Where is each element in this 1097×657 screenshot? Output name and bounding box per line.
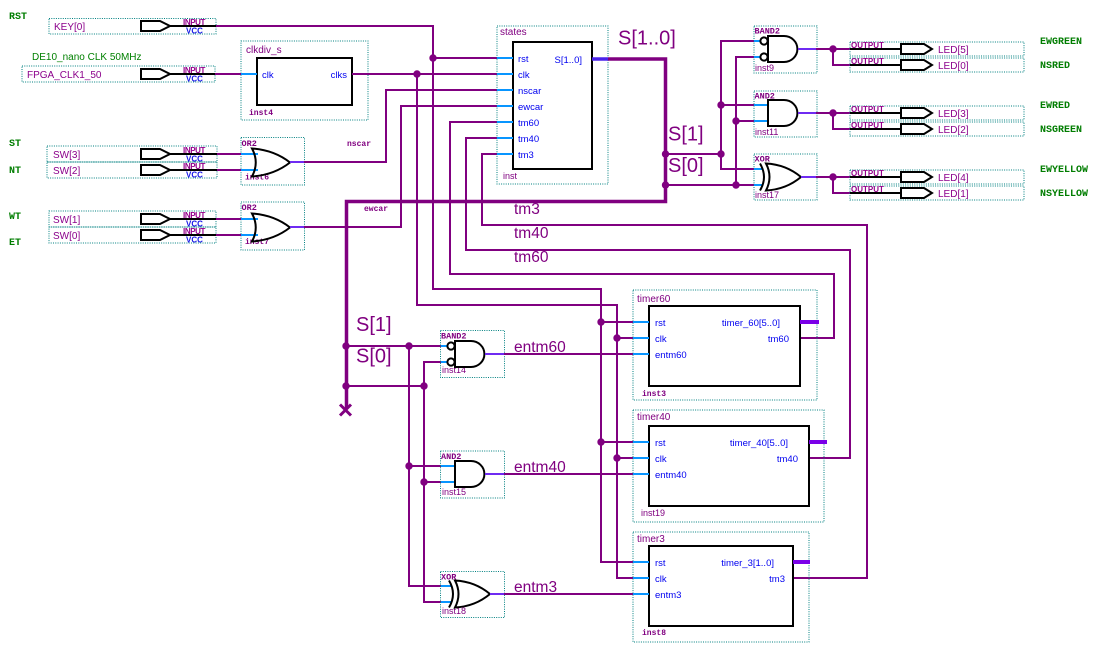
output pin LED[2] — [850, 121, 1024, 136]
node EWRED label — [1040, 101, 1070, 112]
wire SW[0] to inst7 — [216, 234, 241, 236]
svg-text:clk: clk — [262, 70, 274, 81]
svg-text:OR2: OR2 — [242, 203, 257, 213]
wire rst branch to states — [429, 54, 497, 61]
svg-text:KEY[0]: KEY[0] — [54, 22, 85, 33]
wire entm3 net — [504, 593, 633, 595]
svg-text:NSGREEN: NSGREEN — [1040, 125, 1082, 136]
svg-text:clk: clk — [655, 454, 667, 465]
node RST label — [9, 12, 27, 23]
wire entm60 net — [504, 353, 633, 355]
svg-text:inst3: inst3 — [642, 390, 666, 399]
and-gate AND2 inst15 — [441, 451, 505, 498]
wire S[1] tap upper — [662, 150, 721, 157]
xor-gate XOR inst18 — [441, 572, 505, 618]
svg-text:inst9: inst9 — [755, 63, 774, 73]
svg-text:S[1]: S[1] — [356, 314, 392, 336]
wire clk branch to states — [413, 70, 497, 77]
svg-text:SW[3]: SW[3] — [53, 150, 80, 161]
comment DE10_nano CLK 50MHz — [32, 52, 142, 63]
svg-text:EWYELLOW: EWYELLOW — [1040, 165, 1088, 176]
svg-text:nscar: nscar — [518, 86, 541, 97]
svg-text:SW[1]: SW[1] — [53, 215, 80, 226]
svg-text:rst: rst — [655, 558, 666, 569]
svg-text:tm60: tm60 — [514, 249, 549, 266]
node WT label — [9, 212, 21, 223]
svg-text:tm3: tm3 — [518, 150, 534, 161]
or-gate OR2 inst7 — [241, 202, 305, 250]
svg-text:clks: clks — [331, 70, 348, 81]
svg-text:SW[2]: SW[2] — [53, 166, 80, 177]
svg-text:RST: RST — [9, 12, 27, 23]
node EWGREEN label — [1040, 37, 1082, 48]
svg-text:NSRED: NSRED — [1040, 61, 1070, 72]
block states inst — [497, 26, 608, 184]
wire rst branch to timer60 — [597, 318, 633, 325]
wire S[1] branch to inst11 — [717, 101, 754, 108]
svg-text:VCC: VCC — [186, 171, 203, 180]
svg-text:SW[0]: SW[0] — [53, 231, 80, 242]
input pin SW[3] — [47, 146, 217, 164]
or-gate OR2 inst6 — [241, 138, 305, 186]
wire S[1] vertical to gates — [717, 41, 754, 169]
input pin KEY[0] — [49, 18, 216, 36]
wire S[0] vertical lower — [424, 386, 441, 602]
svg-text:EWGREEN: EWGREEN — [1040, 37, 1082, 48]
svg-text:rst: rst — [518, 54, 529, 65]
wire SW[3] to inst6 — [217, 153, 241, 155]
svg-text:NSYELLOW: NSYELLOW — [1040, 189, 1088, 200]
svg-text:LED[0]: LED[0] — [938, 61, 969, 72]
svg-text:LED[2]: LED[2] — [938, 125, 969, 136]
wire FPGA_CLK1_50 to clkdiv — [215, 73, 241, 75]
node NSRED label — [1040, 61, 1070, 72]
output pin LED[0] — [850, 57, 1024, 72]
block timer3 inst8 — [633, 532, 810, 642]
output pin LED[5] — [850, 41, 1024, 56]
and-gate AND2 inst11 — [754, 91, 817, 137]
svg-text:timer_3[1..0]: timer_3[1..0] — [721, 558, 774, 569]
svg-text:inst17: inst17 — [755, 190, 779, 200]
bus dangling X — [340, 405, 351, 416]
svg-text:tm40: tm40 — [777, 454, 798, 465]
wire nscar net — [304, 90, 497, 162]
svg-text:inst11: inst11 — [755, 127, 778, 137]
svg-text:NT: NT — [9, 166, 21, 177]
svg-text:VCC: VCC — [186, 75, 203, 84]
node entm60 label — [514, 339, 566, 356]
wire S[1] vertical lower — [409, 346, 441, 586]
svg-text:clkdiv_s: clkdiv_s — [246, 45, 282, 56]
bus S[1..0] — [347, 59, 666, 409]
svg-text:LED[4]: LED[4] — [938, 173, 969, 184]
svg-text:VCC: VCC — [186, 27, 203, 36]
svg-text:clk: clk — [655, 334, 667, 345]
svg-text:entm60: entm60 — [514, 339, 566, 356]
node S[0] label lower — [356, 346, 392, 368]
block timer60 inst3 — [633, 290, 819, 400]
node NT label — [9, 166, 21, 177]
wire clk branch to timer60 — [613, 334, 633, 341]
svg-text:timer_40[5..0]: timer_40[5..0] — [730, 438, 788, 449]
input pin FPGA_CLK1_50 — [22, 66, 215, 84]
node tm3 label — [514, 201, 540, 218]
nand-gate BAND2 inst9 — [754, 26, 817, 73]
wire S[0] tap lower — [342, 382, 427, 389]
svg-text:timer60: timer60 — [637, 294, 671, 305]
svg-text:inst4: inst4 — [249, 109, 273, 118]
wire rst branch to timer40 — [597, 438, 633, 445]
svg-text:entm40: entm40 — [514, 459, 566, 476]
svg-text:VCC: VCC — [186, 236, 203, 245]
node S[1] label upper — [668, 124, 704, 146]
svg-text:inst: inst — [503, 171, 518, 181]
svg-text:rst: rst — [655, 438, 666, 449]
xor-gate XOR inst17 — [754, 154, 817, 200]
block clkdiv_s inst4 — [241, 41, 368, 120]
node ST label — [9, 139, 21, 150]
node nscar label — [347, 140, 371, 149]
input pin SW[0] — [49, 227, 216, 245]
svg-text:timer40: timer40 — [637, 412, 671, 423]
svg-text:tm60: tm60 — [518, 118, 539, 129]
svg-text:timer3: timer3 — [637, 534, 665, 545]
svg-text:LED[1]: LED[1] — [938, 189, 969, 200]
node entm40 label — [514, 459, 566, 476]
output pin LED[1] — [850, 185, 1024, 200]
node tm40 label — [514, 225, 549, 242]
svg-text:inst19: inst19 — [641, 508, 665, 518]
svg-text:inst8: inst8 — [642, 629, 666, 638]
wire clk branch to timer40 — [613, 454, 633, 461]
wire ewcar net — [304, 106, 497, 227]
svg-text:DE10_nano CLK 50MHz: DE10_nano CLK 50MHz — [32, 52, 142, 63]
svg-text:S[1..0]: S[1..0] — [618, 28, 676, 50]
svg-text:timer_60[5..0]: timer_60[5..0] — [722, 318, 780, 329]
svg-text:clk: clk — [655, 574, 667, 585]
svg-text:ET: ET — [9, 238, 21, 249]
node NSGREEN label — [1040, 125, 1082, 136]
wire S[0] vertical to gates — [736, 57, 754, 185]
wire clk net: clks to states and timers — [352, 74, 633, 578]
svg-text:entm3: entm3 — [514, 579, 557, 596]
wire tm60 net — [450, 122, 834, 338]
svg-text:tm3: tm3 — [514, 201, 540, 218]
wire tm40 net — [466, 138, 850, 458]
svg-text:states: states — [500, 27, 527, 38]
wire SW[2] to inst6 — [217, 169, 241, 171]
node ewcar label — [364, 205, 388, 214]
svg-text:ST: ST — [9, 139, 21, 150]
node S[1] label lower — [356, 314, 392, 336]
svg-text:nscar: nscar — [347, 140, 371, 149]
output pin LED[3] — [850, 105, 1024, 120]
wire inst11 output to LED[3]/LED[2] — [816, 109, 850, 129]
wire S[1] tap lower — [342, 342, 441, 349]
svg-text:LED[3]: LED[3] — [938, 109, 969, 120]
wire tm3 net — [482, 154, 867, 578]
wire S[1] branch to inst15 — [405, 462, 441, 469]
wire entm40 net — [504, 473, 633, 475]
svg-text:S[1]: S[1] — [668, 124, 704, 146]
node S[1..0] label — [618, 28, 676, 50]
svg-text:ewcar: ewcar — [364, 205, 388, 214]
wire S[0] tap upper — [662, 181, 754, 188]
node NSYELLOW label — [1040, 189, 1088, 200]
input pin SW[1] — [49, 211, 216, 229]
svg-text:WT: WT — [9, 212, 21, 223]
node tm60 label — [514, 249, 549, 266]
node S[0] label upper — [668, 155, 704, 177]
wire inst17 output to LED[4]/LED[1] — [816, 173, 850, 193]
svg-text:LED[5]: LED[5] — [938, 45, 969, 56]
svg-text:entm40: entm40 — [655, 470, 687, 481]
svg-text:entm60: entm60 — [655, 350, 687, 361]
svg-text:tm40: tm40 — [514, 225, 549, 242]
svg-text:clk: clk — [518, 70, 530, 81]
node ET label — [9, 238, 21, 249]
svg-text:S[0]: S[0] — [356, 346, 392, 368]
output pin LED[4] — [850, 169, 1024, 184]
nand-gate BAND2 inst14 — [441, 331, 505, 378]
node EWYELLOW label — [1040, 165, 1088, 176]
node entm3 label — [514, 579, 557, 596]
svg-text:tm60: tm60 — [768, 334, 789, 345]
wire S[0] riser to inst14 — [424, 362, 441, 386]
svg-text:S[0]: S[0] — [668, 155, 704, 177]
input pin SW[2] — [47, 162, 217, 180]
svg-text:FPGA_CLK1_50: FPGA_CLK1_50 — [27, 70, 102, 81]
svg-text:tm40: tm40 — [518, 134, 539, 145]
wire rst net: KEY[0] to states and timers — [216, 26, 633, 562]
block timer40 inst19 — [633, 410, 827, 522]
wire SW[1] to inst7 — [216, 218, 241, 220]
svg-text:OR2: OR2 — [242, 139, 257, 149]
svg-text:EWRED: EWRED — [1040, 101, 1070, 112]
wire S[0] branch to inst15 — [420, 478, 441, 485]
svg-text:tm3: tm3 — [769, 574, 785, 585]
wire S[0] branch to inst11 — [732, 117, 754, 124]
svg-text:rst: rst — [655, 318, 666, 329]
svg-text:inst15: inst15 — [442, 487, 466, 497]
svg-text:S[1..0]: S[1..0] — [555, 55, 582, 66]
svg-text:entm3: entm3 — [655, 590, 681, 601]
wire inst9 output to LED[5]/LED[0] — [816, 45, 850, 65]
svg-text:ewcar: ewcar — [518, 102, 543, 113]
